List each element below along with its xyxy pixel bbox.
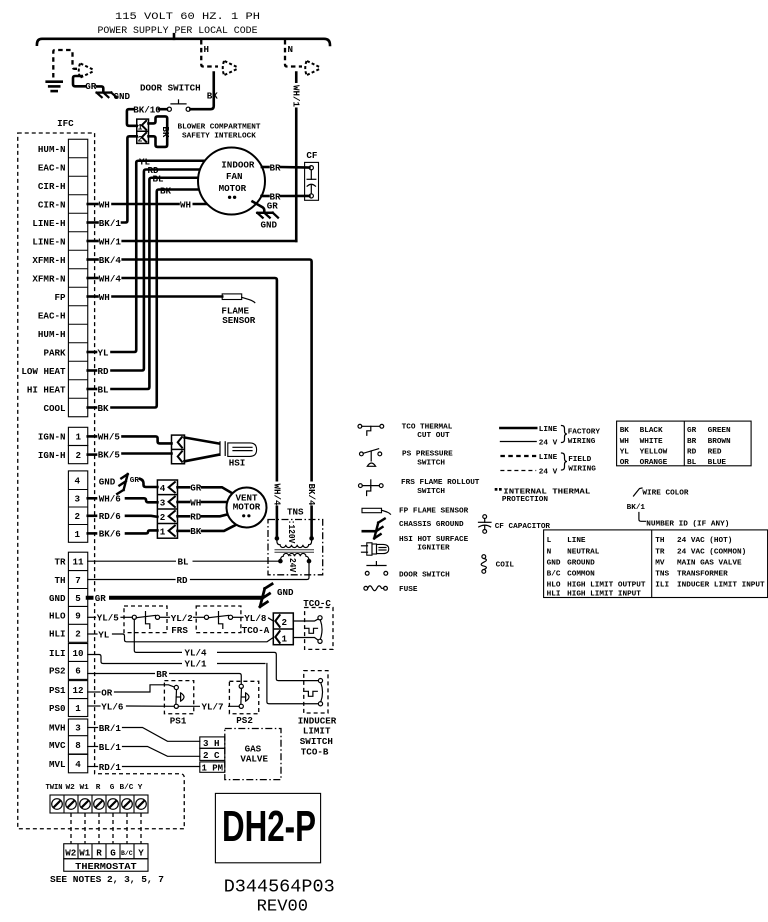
svg-text:BK/1: BK/1 bbox=[627, 504, 646, 512]
svg-text:CIR-N: CIR-N bbox=[38, 199, 66, 210]
PS1 pressure switch bbox=[164, 681, 193, 714]
4-pin connector boxes bbox=[68, 471, 87, 542]
svg-text:TH: TH bbox=[655, 537, 665, 545]
power supply bracket bbox=[37, 39, 330, 45]
wire BK/6 bbox=[88, 532, 96, 535]
svg-text:GR: GR bbox=[85, 81, 97, 92]
svg-text:GND: GND bbox=[547, 559, 561, 567]
svg-text:OR: OR bbox=[620, 459, 630, 467]
wire WH/5 bbox=[88, 435, 96, 438]
svg-text:VALVE: VALVE bbox=[240, 754, 268, 765]
svg-text:PARK: PARK bbox=[43, 347, 66, 358]
svg-text:RD/1: RD/1 bbox=[99, 762, 122, 773]
svg-text:MOTOR: MOTOR bbox=[219, 183, 247, 194]
svg-text:GR: GR bbox=[130, 477, 140, 485]
svg-text:COOL: COOL bbox=[43, 403, 66, 414]
svg-text:RED: RED bbox=[708, 449, 722, 457]
svg-text:4: 4 bbox=[75, 476, 81, 487]
svg-text:2 C: 2 C bbox=[203, 750, 220, 761]
wire YL/7 bbox=[178, 705, 239, 707]
svg-text:YL/6: YL/6 bbox=[101, 701, 123, 712]
wire PARK YL bbox=[88, 351, 96, 354]
abbreviation table bbox=[544, 530, 768, 598]
wire TH RD (24V) bbox=[88, 561, 309, 579]
svg-text:PS2: PS2 bbox=[49, 666, 66, 677]
thermostat screw strip labels bbox=[46, 784, 143, 792]
svg-text:YL/8: YL/8 bbox=[244, 613, 267, 624]
svg-text:WIRING: WIRING bbox=[568, 438, 596, 446]
svg-text:1: 1 bbox=[76, 432, 82, 443]
svg-text:TH: TH bbox=[54, 575, 65, 586]
wire WH/1 vertical from N bbox=[295, 73, 298, 242]
svg-text:24 VAC (HOT): 24 VAC (HOT) bbox=[677, 537, 732, 545]
TCO-A switch bbox=[196, 606, 241, 633]
svg-text:LINE: LINE bbox=[567, 537, 586, 545]
svg-text:BK: BK bbox=[98, 403, 110, 414]
FP legend bbox=[362, 508, 382, 512]
wire WH/6 bbox=[88, 497, 96, 500]
svg-text:SEE NOTES 2, 3, 5, 7: SEE NOTES 2, 3, 5, 7 bbox=[50, 874, 164, 885]
vent motor bbox=[227, 488, 267, 528]
flame sensor bbox=[222, 294, 242, 300]
svg-text:HI HEAT: HI HEAT bbox=[27, 384, 66, 395]
svg-text:WH/4: WH/4 bbox=[271, 484, 282, 507]
svg-text:MVH: MVH bbox=[49, 723, 66, 734]
svg-text:3: 3 bbox=[160, 497, 166, 508]
svg-text:WH: WH bbox=[620, 438, 630, 446]
svg-text:BLOWER COMPARTMENT: BLOWER COMPARTMENT bbox=[178, 124, 261, 132]
svg-text:11: 11 bbox=[73, 557, 85, 568]
svg-text:IGNITER: IGNITER bbox=[417, 545, 450, 553]
chassis ground legend bbox=[363, 530, 376, 533]
svg-text:FIELD: FIELD bbox=[568, 456, 591, 464]
IFC dashed boundary bbox=[18, 133, 185, 829]
svg-text:W2: W2 bbox=[65, 847, 76, 858]
svg-text:BK/6: BK/6 bbox=[99, 529, 121, 540]
secondary coil bbox=[280, 553, 309, 561]
svg-text:D344564P03: D344564P03 bbox=[224, 877, 335, 898]
wire HLI YL to plug pin1 bbox=[88, 633, 97, 635]
svg-text:WH: WH bbox=[99, 292, 110, 303]
vent plug outputs bbox=[178, 486, 190, 489]
svg-text:TR: TR bbox=[54, 557, 66, 568]
svg-text:TNS: TNS bbox=[655, 571, 669, 579]
svg-text:EAC-H: EAC-H bbox=[38, 310, 66, 321]
svg-text:2: 2 bbox=[75, 629, 81, 640]
svg-text:WIRING: WIRING bbox=[568, 466, 596, 474]
svg-text:BK: BK bbox=[207, 91, 219, 102]
svg-text:PS2: PS2 bbox=[236, 715, 253, 726]
svg-text:ILI: ILI bbox=[49, 648, 66, 659]
wire BR top to CF bbox=[262, 166, 269, 169]
HSI legend bbox=[362, 545, 368, 547]
svg-text:YL/1: YL/1 bbox=[185, 659, 208, 670]
svg-text:GND: GND bbox=[261, 219, 278, 230]
svg-text:TWIN: TWIN bbox=[46, 784, 63, 792]
svg-text:LINE-H: LINE-H bbox=[32, 218, 65, 229]
wire CIR-N WH to motor bbox=[88, 203, 98, 206]
svg-text:TCO-B: TCO-B bbox=[301, 746, 329, 757]
svg-text:YL/4: YL/4 bbox=[185, 648, 208, 659]
svg-text:WH/5: WH/5 bbox=[98, 432, 121, 443]
HSI igniter bbox=[185, 438, 219, 462]
wire FP WH to flame sensor bbox=[88, 295, 98, 298]
svg-text:PS1: PS1 bbox=[170, 716, 187, 727]
svg-text:NUMBER ID (IF ANY): NUMBER ID (IF ANY) bbox=[646, 521, 729, 529]
node H connector bbox=[201, 40, 218, 67]
svg-text:MV: MV bbox=[655, 559, 665, 567]
svg-text:YL: YL bbox=[98, 629, 110, 640]
svg-text:1: 1 bbox=[282, 633, 288, 644]
svg-text:BK/5: BK/5 bbox=[98, 449, 121, 460]
svg-text:BR: BR bbox=[270, 163, 282, 174]
svg-text:WH: WH bbox=[180, 199, 191, 210]
svg-text:FP: FP bbox=[54, 292, 66, 303]
PS legend bbox=[360, 452, 364, 456]
svg-text:GND: GND bbox=[114, 91, 131, 102]
chassis ground small bbox=[97, 86, 104, 92]
svg-text:BK: BK bbox=[620, 427, 630, 435]
svg-text:9: 9 bbox=[75, 611, 81, 622]
door switch legend bbox=[367, 565, 386, 567]
screw terminal strip bbox=[50, 795, 148, 813]
svg-text:BL: BL bbox=[153, 173, 165, 184]
svg-text:1: 1 bbox=[160, 527, 166, 538]
svg-text:WIRE COLOR: WIRE COLOR bbox=[642, 489, 689, 497]
svg-text:CF: CF bbox=[306, 150, 317, 161]
svg-text:ORANGE: ORANGE bbox=[640, 459, 668, 467]
svg-text:4: 4 bbox=[160, 483, 166, 494]
core bbox=[275, 549, 315, 551]
svg-text:YL: YL bbox=[620, 449, 630, 457]
bracket tick bbox=[173, 34, 176, 39]
svg-text:4: 4 bbox=[75, 759, 81, 770]
wire PS1 OR bbox=[88, 691, 100, 693]
svg-text:H: H bbox=[204, 44, 210, 55]
svg-text:L: L bbox=[547, 537, 552, 545]
DH2-P box bbox=[215, 793, 320, 862]
svg-text:YELLOW: YELLOW bbox=[640, 449, 668, 457]
svg-text:BK: BK bbox=[160, 186, 172, 197]
fuse legend bbox=[364, 586, 368, 590]
svg-text:N: N bbox=[288, 44, 294, 55]
svg-text:HLO: HLO bbox=[49, 611, 66, 622]
FRS legend bbox=[359, 484, 363, 488]
wire MVC BL/1 bbox=[88, 746, 98, 748]
wire BR bottom to CF bbox=[262, 195, 269, 198]
lower terminal boxes TR..MVL bbox=[68, 552, 87, 773]
svg-text:BR: BR bbox=[156, 669, 168, 680]
svg-text:BK: BK bbox=[190, 526, 202, 537]
svg-text:GND: GND bbox=[99, 476, 116, 487]
svg-text:12: 12 bbox=[73, 685, 84, 696]
svg-text:DH2-P: DH2-P bbox=[222, 802, 316, 851]
svg-text:GND: GND bbox=[49, 593, 66, 604]
svg-text:COMMON: COMMON bbox=[567, 571, 595, 579]
svg-text:TRANSFORMER: TRANSFORMER bbox=[677, 571, 728, 579]
svg-text::120V: :120V bbox=[286, 520, 296, 544]
svg-text:MVL: MVL bbox=[49, 759, 66, 770]
svg-text:LIMIT: LIMIT bbox=[303, 726, 331, 737]
svg-text:TCO-A: TCO-A bbox=[242, 625, 270, 636]
svg-text:BLACK: BLACK bbox=[640, 427, 663, 435]
chassis ground TNS bbox=[260, 584, 272, 607]
svg-text:W1: W1 bbox=[80, 784, 90, 792]
svg-text:6: 6 bbox=[75, 666, 81, 677]
svg-text:WH/4: WH/4 bbox=[99, 273, 122, 284]
wire BK from H plug to door switch bbox=[190, 73, 213, 110]
svg-text:YL/7: YL/7 bbox=[202, 702, 224, 713]
svg-text:HSI: HSI bbox=[229, 457, 246, 468]
svg-text:BL/1: BL/1 bbox=[99, 742, 122, 753]
svg-text:HIGH LIMIT OUTPUT: HIGH LIMIT OUTPUT bbox=[567, 582, 646, 590]
svg-text:RD: RD bbox=[687, 449, 697, 457]
svg-text:IGN-H: IGN-H bbox=[38, 450, 66, 461]
wire GR to chassis gnd bbox=[253, 202, 265, 213]
svg-text:2: 2 bbox=[75, 511, 81, 522]
svg-text:NEUTRAL: NEUTRAL bbox=[567, 548, 600, 556]
svg-text:R: R bbox=[96, 784, 101, 792]
factory/field wiring legend bbox=[500, 427, 536, 430]
wire LINE-N WH/1 bbox=[88, 240, 98, 243]
svg-text:FUSE: FUSE bbox=[399, 586, 418, 594]
svg-text:LINE-N: LINE-N bbox=[32, 236, 65, 247]
svg-text:GR: GR bbox=[190, 483, 202, 494]
svg-text:TR: TR bbox=[655, 548, 665, 556]
indoor fan motor bbox=[198, 148, 265, 215]
svg-text:FP FLAME SENSOR: FP FLAME SENSOR bbox=[399, 508, 469, 516]
svg-text:YL/2: YL/2 bbox=[171, 613, 193, 624]
svg-text:BL: BL bbox=[178, 557, 190, 568]
svg-text:HLI: HLI bbox=[547, 591, 561, 599]
wire GR hook bbox=[73, 76, 85, 86]
svg-text:DOOR SWITCH: DOOR SWITCH bbox=[399, 572, 450, 580]
PS2 pressure switch bbox=[229, 681, 258, 713]
svg-text:WH: WH bbox=[99, 199, 110, 210]
svg-text:3 H: 3 H bbox=[203, 738, 220, 749]
svg-text:BR: BR bbox=[687, 438, 697, 446]
svg-text:7: 7 bbox=[75, 575, 81, 586]
svg-text:CIR-H: CIR-H bbox=[38, 181, 66, 192]
svg-text:CHASSIS GROUND: CHASSIS GROUND bbox=[399, 521, 464, 529]
dashed drops to thermostat bbox=[71, 813, 141, 844]
wire XFMR-N WH/4 bbox=[88, 277, 98, 280]
wire YL/4 FRS to inducer bbox=[134, 619, 318, 680]
svg-text:Y: Y bbox=[138, 784, 143, 792]
svg-text:10: 10 bbox=[73, 648, 84, 659]
svg-text:HUM-H: HUM-H bbox=[38, 329, 66, 340]
svg-text:8: 8 bbox=[75, 740, 81, 751]
svg-text:BK/4: BK/4 bbox=[99, 255, 122, 266]
svg-text:2: 2 bbox=[160, 512, 166, 523]
svg-text:LINE: LINE bbox=[539, 454, 558, 462]
svg-text:WH/1: WH/1 bbox=[99, 236, 122, 247]
primary coil bbox=[277, 538, 312, 547]
svg-text:BK/10: BK/10 bbox=[133, 104, 161, 115]
HSI plug bbox=[172, 435, 185, 464]
svg-text:FRS: FRS bbox=[171, 625, 188, 636]
svg-text:1 PM: 1 PM bbox=[202, 762, 224, 773]
svg-text:CF CAPACITOR: CF CAPACITOR bbox=[495, 523, 551, 531]
wire HI HEAT BL bbox=[88, 388, 96, 391]
wire interlock pin2 down to LINE-H bbox=[122, 136, 137, 222]
wire ILI YL/1 bbox=[88, 655, 319, 704]
TCO plug 2/1 bbox=[273, 613, 293, 645]
svg-text:MOTOR: MOTOR bbox=[233, 501, 261, 512]
wire LINE-H BK/1 stub bbox=[88, 221, 98, 224]
interlock BK loop bbox=[149, 116, 168, 146]
svg-text:XFMR-H: XFMR-H bbox=[32, 255, 65, 266]
wire XFMR-H BK/4 bbox=[88, 258, 98, 261]
blower interlock plug bbox=[137, 119, 149, 143]
wire YL/8 bbox=[233, 616, 243, 618]
svg-text:24 V: 24 V bbox=[539, 440, 558, 448]
svg-text:HLO: HLO bbox=[547, 582, 561, 590]
svg-text:WH: WH bbox=[190, 497, 201, 508]
svg-text:BROWN: BROWN bbox=[708, 438, 731, 446]
wire GND GR thick bbox=[88, 596, 262, 600]
CF capacitor legend bbox=[483, 515, 487, 519]
chassis ground motor bbox=[257, 208, 278, 223]
svg-text:BL: BL bbox=[687, 459, 697, 467]
svg-text:SAFETY INTERLOCK: SAFETY INTERLOCK bbox=[182, 132, 256, 140]
svg-text:COIL: COIL bbox=[496, 562, 515, 570]
IFC upper terminal boxes bbox=[68, 139, 87, 417]
svg-text:B/C: B/C bbox=[120, 784, 134, 792]
svg-text:SWITCH: SWITCH bbox=[300, 736, 333, 747]
wire PS0 YL/6 bbox=[88, 705, 100, 707]
IFC row labels bbox=[21, 144, 66, 414]
svg-text:RD: RD bbox=[177, 575, 189, 586]
rotated labels WH/4 BK/4 bbox=[272, 482, 282, 506]
internal thermal protection bbox=[495, 488, 498, 491]
node N connector bbox=[285, 40, 302, 67]
svg-text:HSI HOT SURFACE: HSI HOT SURFACE bbox=[399, 536, 469, 544]
svg-text:PS1: PS1 bbox=[49, 685, 66, 696]
svg-text:24 VAC (COMMON): 24 VAC (COMMON) bbox=[677, 548, 746, 556]
svg-text:BLUE: BLUE bbox=[708, 459, 727, 467]
svg-text:GR: GR bbox=[95, 593, 107, 604]
svg-text:W1: W1 bbox=[79, 847, 91, 858]
svg-text:GR: GR bbox=[687, 427, 697, 435]
svg-text:GREEN: GREEN bbox=[708, 427, 731, 435]
svg-text:GND: GND bbox=[277, 587, 294, 598]
svg-text:2: 2 bbox=[282, 617, 288, 628]
svg-text:HLI: HLI bbox=[49, 629, 66, 640]
wire color callout bbox=[634, 488, 643, 496]
wire HLO YL/5 bbox=[88, 616, 96, 618]
svg-text:PROTECTION: PROTECTION bbox=[502, 496, 549, 504]
svg-text:DOOR SWITCH: DOOR SWITCH bbox=[140, 83, 201, 94]
svg-text:G: G bbox=[110, 847, 116, 858]
svg-text:TNS: TNS bbox=[287, 507, 304, 518]
svg-text:INDUCER LIMIT INPUT: INDUCER LIMIT INPUT bbox=[677, 582, 765, 590]
FRS switch bbox=[124, 606, 167, 633]
svg-text:MAIN GAS VALVE: MAIN GAS VALVE bbox=[677, 559, 742, 567]
wire RD/6 bbox=[88, 514, 96, 517]
thermostat label box bbox=[64, 859, 148, 872]
coil legend bbox=[482, 555, 486, 559]
wire PS2 BR bbox=[88, 674, 242, 685]
wire COOL BK bbox=[88, 406, 96, 409]
svg-text:HIGH LIMIT INPUT: HIGH LIMIT INPUT bbox=[567, 591, 641, 599]
svg-text:BK: BK bbox=[160, 126, 171, 138]
wire color table bbox=[617, 421, 752, 466]
svg-text:BR/1: BR/1 bbox=[99, 723, 122, 734]
vent plug bbox=[157, 480, 177, 538]
svg-text:SWITCH: SWITCH bbox=[417, 459, 445, 467]
svg-text:R: R bbox=[96, 847, 102, 858]
svg-text:INDOOR: INDOOR bbox=[221, 159, 255, 170]
svg-text:BK/4: BK/4 bbox=[306, 484, 317, 507]
svg-text:PS PRESSURE: PS PRESSURE bbox=[402, 451, 453, 459]
svg-text:IGN-N: IGN-N bbox=[38, 432, 66, 443]
plug (dashed connector) near ground bbox=[79, 64, 94, 78]
svg-text:IFC: IFC bbox=[57, 118, 74, 129]
svg-text:2: 2 bbox=[76, 450, 82, 461]
svg-text:THERMOSTAT: THERMOSTAT bbox=[75, 861, 137, 872]
svg-text:FRS FLAME ROLLOUT: FRS FLAME ROLLOUT bbox=[401, 479, 480, 487]
inducer limit switch bbox=[304, 671, 328, 713]
svg-text:N: N bbox=[547, 548, 552, 556]
svg-text:CUT OUT: CUT OUT bbox=[417, 432, 450, 440]
svg-text:WHITE: WHITE bbox=[640, 438, 663, 446]
svg-text:B/C: B/C bbox=[547, 571, 561, 579]
svg-text:YL: YL bbox=[98, 347, 110, 358]
svg-text:115 VOLT 60 HZ. 1 PH: 115 VOLT 60 HZ. 1 PH bbox=[115, 12, 260, 23]
svg-text:GROUND: GROUND bbox=[567, 559, 595, 567]
dashed ground drop (field wiring) bbox=[53, 50, 77, 78]
svg-text:OR: OR bbox=[101, 687, 113, 698]
wire YL/2 bbox=[160, 616, 170, 618]
svg-text:BK/1: BK/1 bbox=[99, 218, 122, 229]
wire TR BL (24V) bbox=[88, 560, 278, 562]
wire BK/5 bbox=[88, 453, 96, 456]
svg-text:5: 5 bbox=[75, 593, 81, 604]
wire MVH BR/1 bbox=[88, 727, 98, 729]
svg-text:XFMR-N: XFMR-N bbox=[32, 273, 65, 284]
svg-text:1: 1 bbox=[75, 529, 81, 540]
gas valve box bbox=[225, 729, 281, 780]
svg-text:GR: GR bbox=[267, 200, 279, 211]
svg-text:FAN: FAN bbox=[226, 171, 243, 182]
svg-text:TCO THERMAL: TCO THERMAL bbox=[402, 424, 453, 432]
svg-text:BL: BL bbox=[98, 384, 110, 395]
svg-text:YL/5: YL/5 bbox=[97, 613, 120, 624]
svg-text:REV00: REV00 bbox=[257, 898, 309, 917]
svg-text:EAC-N: EAC-N bbox=[38, 162, 66, 173]
svg-text:FACTORY: FACTORY bbox=[568, 429, 601, 437]
svg-text:HUM-N: HUM-N bbox=[38, 144, 66, 155]
svg-text:MVC: MVC bbox=[49, 740, 66, 751]
svg-text:POWER SUPPLY PER LOCAL CODE: POWER SUPPLY PER LOCAL CODE bbox=[98, 26, 258, 37]
wire LOW HEAT RD bbox=[88, 369, 96, 372]
svg-text:24 V: 24 V bbox=[539, 469, 558, 477]
svg-text:WH/6: WH/6 bbox=[99, 494, 121, 505]
svg-text:LOW HEAT: LOW HEAT bbox=[21, 366, 66, 377]
svg-text:3: 3 bbox=[75, 723, 81, 734]
TCO legend bbox=[358, 424, 362, 428]
svg-text:B/C: B/C bbox=[121, 850, 133, 857]
svg-text:G: G bbox=[110, 784, 115, 792]
svg-text:PS0: PS0 bbox=[49, 703, 66, 714]
wire MVL RD/1 bbox=[88, 766, 98, 768]
svg-text:SWITCH: SWITCH bbox=[417, 488, 445, 496]
svg-text:RD/6: RD/6 bbox=[99, 511, 121, 522]
earth ground bbox=[47, 80, 62, 83]
svg-text:WH/1: WH/1 bbox=[291, 85, 302, 108]
thermostat cells bbox=[64, 844, 148, 859]
